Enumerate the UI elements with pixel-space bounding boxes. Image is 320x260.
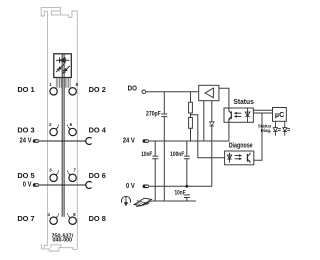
wire R divider tap to diagnose	[191, 115, 225, 158]
svg-text:100nF: 100nF	[170, 151, 185, 158]
svg-text:DO 7: DO 7	[17, 214, 34, 223]
svg-text:3: 3	[49, 167, 52, 172]
wire driver output to status opto	[219, 88, 229, 108]
svg-text:DO 1: DO 1	[17, 85, 34, 94]
svg-text:10nF: 10nF	[141, 151, 153, 158]
wire driver pin A to 24V rail	[203, 101, 205, 141]
terminal circle pin3	[50, 174, 57, 181]
svg-text:2: 2	[49, 122, 52, 127]
wire 24V jumper left	[39, 140, 86, 142]
wire DO line	[146, 91, 199, 93]
svg-text:6: 6	[70, 122, 73, 127]
svg-text:10nF: 10nF	[175, 190, 187, 197]
wire status to uC lower	[253, 112, 272, 114]
clamp tick pin2	[56, 125, 59, 130]
svg-text:0 V: 0 V	[23, 181, 32, 189]
resistor R2	[189, 113, 193, 141]
svg-text:4: 4	[47, 212, 50, 217]
svg-text:DO 8: DO 8	[89, 214, 106, 223]
terminal circle pin2	[50, 128, 57, 135]
svg-text:0 V: 0 V	[126, 182, 135, 190]
node junction on 0V rail	[185, 185, 188, 188]
svg-text:7: 7	[73, 167, 76, 172]
terminal circle pin5	[69, 88, 76, 95]
module housing outline	[41, 8, 77, 251]
LED box U1	[54, 54, 72, 78]
power jumper contact arc 0V	[86, 182, 92, 189]
wire bundle center	[62, 54, 64, 217]
wire 0V rail	[149, 185, 212, 187]
ground functional earth symbol	[121, 196, 130, 206]
diode D1 inside LED box	[56, 57, 69, 63]
svg-text:Diagnose: Diagnose	[229, 142, 253, 150]
svg-text:µC: µC	[275, 110, 284, 119]
clamp tick pin4	[56, 213, 59, 218]
light arrows diagnose	[235, 155, 242, 160]
svg-text:24 V: 24 V	[19, 137, 31, 145]
LED pair inside LED box	[56, 64, 69, 73]
diode zener D2	[210, 122, 215, 126]
terminal circle pin8	[69, 217, 76, 224]
ground chassis rail symbol	[134, 198, 152, 206]
terminal circle pin7	[69, 174, 76, 181]
wire diagnose opto to uC lower wire	[254, 113, 262, 160]
clamp tick pin8	[68, 213, 71, 218]
capacitor 270pF	[161, 92, 167, 201]
transistor photo status	[229, 108, 231, 122]
clamp tick pin6	[68, 125, 71, 130]
svg-text:DO 2: DO 2	[89, 85, 106, 94]
terminal circle pin1	[50, 88, 57, 95]
optocoupler status box	[224, 108, 253, 122]
op-amp driver box U2	[199, 85, 219, 100]
LED inside status opto	[245, 108, 250, 122]
transistor photo diagnose	[247, 153, 250, 163]
svg-text:Status: Status	[233, 98, 253, 106]
svg-text:8: 8	[73, 212, 76, 217]
LED status indicator	[273, 121, 281, 135]
svg-text:DO: DO	[128, 85, 138, 93]
wire earth rail	[151, 200, 197, 202]
wire status to uC upper	[253, 109, 272, 111]
capacitor 10nF upper	[152, 141, 158, 201]
terminal 0V right	[143, 185, 149, 189]
capacitor 10nF lower	[184, 195, 190, 201]
wire driver pin B upper	[211, 101, 213, 122]
svg-text:DO 4: DO 4	[89, 126, 107, 135]
LED inside diagnose opto	[227, 153, 231, 163]
svg-text:1: 1	[49, 82, 52, 87]
resistor R1	[189, 92, 193, 113]
clamp tick pin7	[68, 171, 71, 176]
svg-text:270pF: 270pF	[146, 111, 161, 118]
wire 0V jumper left	[39, 184, 86, 186]
wire driver pin B lower to 0V corner	[211, 126, 213, 186]
svg-text:DO 5: DO 5	[17, 171, 34, 180]
terminal 24V right	[143, 139, 149, 143]
terminal 24V left	[33, 139, 39, 143]
svg-text:DO 3: DO 3	[17, 126, 34, 135]
power jumper contact arc 24V	[86, 138, 92, 145]
clamp tick pin3	[56, 171, 59, 176]
svg-text:040-000: 040-000	[53, 237, 73, 243]
svg-text:24 V: 24 V	[123, 137, 135, 145]
optocoupler diagnose box	[225, 151, 254, 165]
LED diag indicator	[283, 121, 290, 135]
light arrows status	[234, 112, 241, 117]
capacitor 100nF	[184, 141, 190, 186]
terminal circle pin6	[69, 128, 76, 135]
terminal DO circle	[142, 90, 146, 94]
contact comb hatch below LED box	[56, 78, 70, 88]
svg-text:DO 6: DO 6	[89, 171, 106, 180]
svg-text:5: 5	[76, 82, 79, 87]
uC box	[273, 108, 287, 122]
terminal 0V left	[33, 183, 39, 187]
wire 24V rail	[149, 122, 229, 141]
terminal circle pin4	[50, 217, 57, 224]
